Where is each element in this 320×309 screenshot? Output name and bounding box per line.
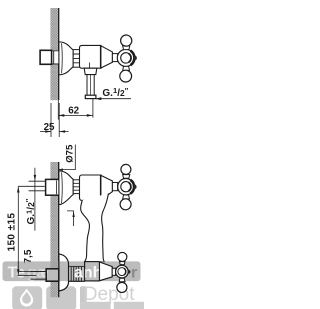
- threaded rings (bottom view): [73, 180, 79, 194]
- label diameter 75: [65, 144, 76, 163]
- watermark grey bottom bar: [80, 302, 111, 309]
- outlet pipe (top view): [87, 75, 94, 96]
- watermark icon square 1 with droplet: [12, 286, 42, 309]
- outlet nut under body (top view): [84, 68, 97, 74]
- lower handle top ball: [120, 262, 125, 265]
- svg-text:Ø75: Ø75: [65, 144, 76, 163]
- lower ribs: [69, 266, 85, 281]
- supply union nut 2: [46, 269, 59, 281]
- lower top ball redraw: [120, 262, 125, 265]
- wall (bottom view) hatched: [50, 162, 58, 297]
- dimension 7,5: [19, 271, 45, 273]
- dimension 150 line redraw over band: [18, 261, 46, 275]
- supply pipe through wall (top view): [52, 51, 59, 64]
- wall (top view) hatched: [50, 8, 58, 100]
- lower cone: [100, 262, 113, 281]
- lower hub redraw: [116, 265, 129, 278]
- outlet collar (top view): [85, 95, 96, 98]
- handle right nub (bottom view): [134, 184, 137, 189]
- lower body: [85, 262, 100, 281]
- handle top ball (bottom view): [123, 175, 130, 179]
- lower handle bottom ball: [119, 278, 125, 282]
- label G.1/2 rotated (bottom view): [24, 198, 37, 224]
- cone (top view): [101, 46, 113, 68]
- supply pipe 2 redraw: [31, 272, 47, 280]
- dimension 150 +-15: [18, 186, 45, 275]
- handle hub (bottom view): [118, 179, 134, 195]
- watermark icon square 2: [46, 286, 76, 309]
- lower stem redraw: [112, 268, 115, 275]
- lower handle right nub: [128, 270, 130, 274]
- lower bell redraw: [59, 254, 69, 291]
- handle right nub (top view): [134, 55, 137, 60]
- stem (bottom view): [112, 183, 117, 191]
- supply union nut 1 (bottom view): [46, 179, 60, 195]
- svg-text:25: 25: [44, 122, 55, 133]
- handle top ball (top view): [123, 46, 130, 50]
- threaded rings (top view): [73, 50, 79, 68]
- lower ribs and body bottom edges redraw: [69, 280, 85, 282]
- svg-text:Te: Te: [8, 265, 26, 282]
- escutcheon bell (bottom view): [59, 171, 73, 205]
- svg-text:150 ±15: 150 ±15: [7, 213, 18, 252]
- cone (bottom view): [101, 175, 113, 200]
- svg-text:62: 62: [68, 105, 79, 116]
- lower stem: [112, 268, 115, 275]
- watermark icon square 3 sliver: [80, 286, 87, 309]
- dimension 25 (wall thickness): [40, 103, 69, 137]
- lower nub redraw: [128, 270, 130, 274]
- stem (top view): [112, 54, 117, 62]
- watermark letters: [8, 265, 138, 282]
- svg-text:Depot: Depot: [84, 284, 135, 305]
- lower bottom ball redraw: [119, 278, 125, 282]
- leader arrow mid (outlet centre mark): [67, 211, 74, 226]
- svg-text:r: r: [131, 265, 137, 282]
- supply union nut (top view): [40, 50, 52, 64]
- lower ribs redraw under letters: [69, 266, 85, 281]
- lower fixture redraw over band: [31, 252, 131, 292]
- leader for diameter 75: [58, 145, 76, 170]
- drop tube: [81, 193, 109, 261]
- escutcheon bell (top view): [59, 42, 73, 75]
- wall face line (bottom view): [58, 162, 60, 297]
- supply pipe 2 (bottom view lower): [31, 272, 47, 280]
- dimension 62 (top view): [58, 99, 93, 120]
- handle bottom ball (bottom view): [123, 195, 130, 199]
- supply pipe 1 (bottom view): [29, 181, 46, 191]
- valve body (bottom view): [80, 175, 102, 200]
- label G.1/2 (top view): [95, 86, 131, 100]
- svg-text:anh: anh: [74, 265, 102, 282]
- handle bottom ball (top view): [123, 66, 130, 70]
- handle hub (top view): [117, 49, 134, 66]
- watermark grey band: [3, 261, 141, 281]
- svg-text:7,5: 7,5: [23, 249, 34, 263]
- valve body (top view): [80, 45, 102, 68]
- lower handle hub: [116, 265, 129, 278]
- lower cone redraw: [100, 262, 113, 281]
- supply union nut 2 redraw: [46, 269, 59, 281]
- lower bell escutcheon: [59, 254, 69, 291]
- wall face line (top view): [58, 8, 60, 100]
